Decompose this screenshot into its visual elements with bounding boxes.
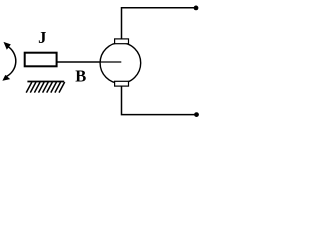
terminal node bottom (194, 112, 199, 117)
wire top (brush to terminal) (122, 8, 197, 39)
svg-text:J: J (38, 28, 46, 47)
motor M (armature circle) (100, 43, 141, 84)
brush top (115, 39, 129, 44)
brush bottom (115, 81, 129, 86)
terminal node top (194, 6, 199, 11)
shaft wire (57, 61, 122, 63)
ground hatching (bearing) (26, 82, 64, 93)
inertia block J (25, 53, 57, 67)
svg-text:B: B (75, 67, 86, 86)
wire bottom (brush to terminal) (122, 86, 197, 115)
shaft stub inside motor (101, 61, 122, 63)
rotation arrow (double-headed arc) (2, 42, 15, 81)
